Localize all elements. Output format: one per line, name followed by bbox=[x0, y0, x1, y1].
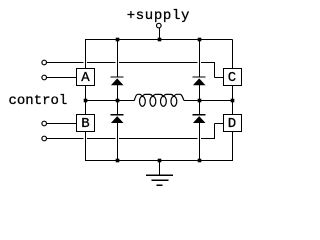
svg-text:C: C bbox=[228, 70, 236, 86]
svg-text:A: A bbox=[81, 70, 90, 86]
svg-text:D: D bbox=[228, 116, 236, 132]
svg-text:control: control bbox=[9, 93, 68, 109]
svg-text:+supply: +supply bbox=[127, 8, 190, 24]
svg-text:B: B bbox=[81, 116, 89, 132]
